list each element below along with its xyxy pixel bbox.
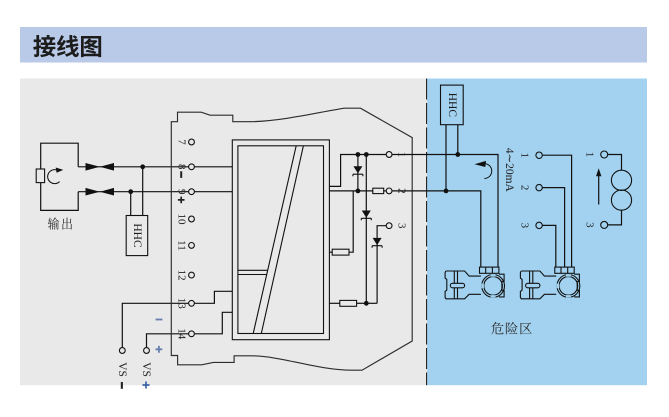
pressure transmitter 2 [520, 267, 579, 299]
indicator terminal 3 circle [601, 221, 608, 228]
isolation diagonal line 1 [253, 146, 296, 334]
HHC wire right [457, 125, 459, 155]
zener diode D1 rail [357, 155, 359, 191]
svg-text:11: 11 [176, 240, 188, 251]
svg-text:VS: VS [116, 362, 128, 377]
wire: output bottom to terminal 9 [78, 191, 189, 193]
minus mark near terminal 14 wire [156, 319, 163, 321]
svg-text:1: 1 [519, 152, 531, 158]
junction dot HHC right on wire 1 [455, 152, 460, 157]
isolator block outer rectangle [232, 140, 329, 340]
isolator block inner rectangle [238, 146, 324, 334]
header title bar [20, 27, 647, 63]
resistor bottom [340, 300, 357, 306]
wire terminal 14 to VS+ [147, 334, 189, 348]
junction dots on wire 1 [356, 152, 361, 157]
terminal 12 circle [189, 272, 195, 278]
wire indicator terminal 3 [608, 210, 622, 225]
terminal 9 circle [189, 189, 195, 195]
label 危险区 [491, 322, 531, 334]
svg-text:3: 3 [519, 223, 531, 229]
resistor mid [332, 249, 349, 255]
wire indicator terminal 1 [608, 155, 622, 171]
indicator load circle bottom [611, 190, 631, 210]
wire: bottom junction down to HHC [130, 192, 132, 216]
resistor (shunt) on output device left edge [36, 169, 44, 183]
transmitter 2 terminal 2 circle [536, 184, 542, 190]
wire block mid resistor up to wire 2 [329, 251, 332, 253]
wire t2 terminal 3 down [542, 225, 556, 267]
wire terminal 13 to VS- [122, 303, 188, 347]
terminal 2 circle [386, 188, 392, 194]
svg-text:HHC: HHC [446, 93, 458, 118]
terminal 7 circle [189, 139, 195, 145]
wire terminal 9 to block [194, 191, 232, 193]
terminal 11 circle [189, 243, 195, 249]
wire: output top to terminal 8 [78, 166, 189, 168]
HHC handheld communicator box (hazard side) [441, 85, 464, 125]
bottom wire with resistor [329, 302, 339, 304]
plus mark near VS+ [156, 346, 163, 353]
HHC wire left [445, 125, 447, 191]
svg-text:1: 1 [584, 152, 596, 158]
zener diode D3 [376, 238, 378, 303]
power section divider line 1 [238, 269, 268, 271]
pressure transmitter 1 [445, 267, 504, 299]
svg-text:3: 3 [396, 223, 408, 229]
terminal 1 circle [386, 152, 392, 158]
current direction arrow [598, 174, 600, 205]
svg-text:VS: VS [140, 362, 152, 377]
wire terminal 8 to block [194, 166, 232, 168]
label 输出 [48, 217, 72, 229]
junction on bottom wire [128, 189, 133, 194]
wire terminal 2 into hazard area [392, 191, 481, 267]
svg-text:3: 3 [584, 222, 596, 228]
junction dot on wire 2 [356, 189, 361, 194]
indicator load circle top [611, 170, 631, 190]
HHC handheld communicator box (left) [126, 216, 148, 256]
transmitter 2 terminal 1 circle [536, 152, 542, 158]
wire t2 terminal 1 down [542, 155, 571, 267]
svg-text:HHC: HHC [131, 223, 143, 248]
diagram canvas: hazardous area (blue) [427, 79, 647, 386]
wire terminal 3 to zener D3 [377, 226, 386, 238]
wire terminal 1 into hazard area [392, 155, 498, 268]
output device outline (输出 meter) [41, 143, 78, 210]
indicator terminal 1 circle [601, 151, 608, 158]
wire block to terminal 1 (L) [329, 155, 386, 187]
wire t2 terminal 2 down [542, 188, 564, 268]
module housing outline [171, 108, 412, 370]
terminal 10 circle [189, 216, 195, 222]
zener diode D2 rail [365, 155, 367, 304]
power section divider line 2 [238, 274, 267, 276]
diagram canvas: safe area (grey) [20, 79, 427, 386]
svg-text:12: 12 [176, 270, 188, 281]
terminal 14 circle [189, 331, 195, 337]
wire 2: block to terminal 2 [329, 190, 372, 192]
connector bowtie on top wire [86, 163, 100, 171]
terminal 9 polarity plus [178, 197, 185, 204]
isolation diagonal line 2 [261, 146, 303, 334]
junction dot bottom rail [364, 301, 369, 306]
terminal 8 polarity minus [180, 171, 182, 178]
rotation arrow inside output device [48, 170, 60, 184]
svg-text:4∼20mA: 4∼20mA [503, 148, 515, 193]
connector bowtie on bottom wire [86, 188, 100, 196]
svg-text:9: 9 [176, 189, 188, 195]
junction dot HHC left on wire 2 [444, 189, 449, 194]
VS+ terminal circle [144, 348, 150, 354]
wire: top junction down to HHC [142, 167, 144, 216]
terminal 13 circle [189, 300, 195, 306]
loop rotation arrow [484, 164, 491, 179]
svg-text:2: 2 [519, 185, 531, 191]
resistor on wire 2 [373, 188, 384, 193]
svg-text:10: 10 [176, 214, 188, 226]
svg-text:8: 8 [176, 164, 188, 170]
terminal 3 circle [386, 223, 392, 229]
transmitter 2 terminal 3 circle [536, 222, 542, 228]
terminal 8 circle [189, 164, 195, 170]
wire terminal 14 to block (step) [194, 312, 232, 334]
VS- terminal circle [119, 348, 125, 354]
zone boundary dashed line [426, 79, 428, 386]
header title text 接线图 [33, 35, 101, 57]
wire terminal 13 to block (step) [194, 291, 232, 303]
svg-text:7: 7 [176, 139, 188, 145]
junction on top wire [140, 164, 145, 169]
